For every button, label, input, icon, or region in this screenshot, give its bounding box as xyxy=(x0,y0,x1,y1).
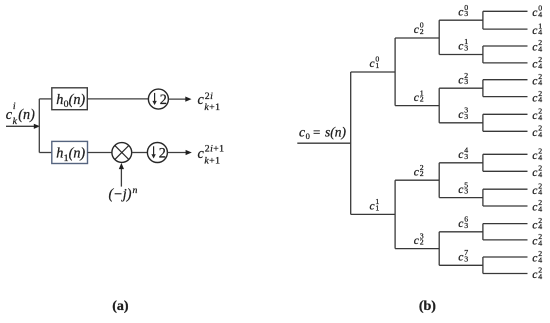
svg-text:c: c xyxy=(532,236,537,248)
svg-text:4: 4 xyxy=(538,170,542,179)
svg-text:2i+1: 2i+1 xyxy=(205,144,225,155)
svg-text:k+1: k+1 xyxy=(204,155,220,166)
svg-text:4: 4 xyxy=(538,10,542,19)
svg-text:2: 2 xyxy=(420,27,424,36)
svg-text:c: c xyxy=(532,25,537,37)
svg-text:c: c xyxy=(532,75,537,87)
svg-text:c: c xyxy=(299,124,305,139)
svg-text:4: 4 xyxy=(538,28,542,37)
svg-text:c: c xyxy=(370,58,375,70)
svg-text:k+1: k+1 xyxy=(204,102,220,113)
svg-text:c: c xyxy=(370,201,375,213)
svg-text:c: c xyxy=(458,74,463,86)
svg-text:4: 4 xyxy=(538,205,542,214)
svg-text:4: 4 xyxy=(538,256,542,265)
svg-text:2i: 2i xyxy=(205,91,213,102)
svg-text:(n): (n) xyxy=(69,146,86,162)
svg-text:3: 3 xyxy=(464,187,468,196)
svg-text:c: c xyxy=(458,218,463,230)
svg-text:4: 4 xyxy=(538,153,542,162)
svg-text:c: c xyxy=(414,235,419,247)
svg-text:c: c xyxy=(532,185,537,197)
svg-text:(n): (n) xyxy=(69,92,86,108)
svg-text:c: c xyxy=(532,167,537,179)
svg-text:3: 3 xyxy=(464,221,468,230)
svg-text:c: c xyxy=(532,42,537,54)
svg-text:=: = xyxy=(313,124,320,139)
svg-text:4: 4 xyxy=(538,45,542,54)
svg-text:k: k xyxy=(13,116,18,127)
svg-text:(−j): (−j) xyxy=(109,187,132,203)
svg-text:c: c xyxy=(532,202,537,214)
svg-text:4: 4 xyxy=(538,95,542,104)
svg-text:3: 3 xyxy=(464,152,468,161)
svg-text:c: c xyxy=(458,41,463,53)
svg-text:3: 3 xyxy=(464,9,468,18)
svg-text:1: 1 xyxy=(375,61,379,70)
svg-text:c: c xyxy=(532,110,537,122)
svg-text:4: 4 xyxy=(538,78,542,87)
svg-text:c: c xyxy=(458,184,463,196)
svg-text:2: 2 xyxy=(159,146,166,162)
svg-text:c: c xyxy=(414,92,419,104)
svg-text:c: c xyxy=(532,253,537,265)
svg-text:3: 3 xyxy=(464,112,468,121)
svg-text:3: 3 xyxy=(464,77,468,86)
svg-text:n: n xyxy=(133,185,138,196)
svg-text:4: 4 xyxy=(538,222,542,231)
svg-text:c: c xyxy=(532,127,537,139)
svg-text:i: i xyxy=(13,101,16,112)
svg-text:2: 2 xyxy=(420,169,424,178)
svg-text:4: 4 xyxy=(538,238,542,247)
svg-text:c: c xyxy=(414,166,419,178)
svg-text:4: 4 xyxy=(538,188,542,197)
svg-text:2: 2 xyxy=(420,238,424,247)
svg-text:1: 1 xyxy=(375,203,379,212)
svg-text:4: 4 xyxy=(538,272,542,281)
svg-text:(n): (n) xyxy=(18,107,35,123)
svg-text:(a): (a) xyxy=(112,299,129,314)
svg-text:c: c xyxy=(414,24,419,36)
svg-text:c: c xyxy=(458,6,463,18)
svg-text:s(n): s(n) xyxy=(325,124,346,139)
svg-text:c: c xyxy=(532,7,537,19)
svg-text:(b): (b) xyxy=(419,299,436,314)
svg-text:3: 3 xyxy=(464,44,468,53)
svg-text:4: 4 xyxy=(538,61,542,70)
svg-text:c: c xyxy=(458,252,463,264)
svg-text:0: 0 xyxy=(306,131,310,141)
svg-text:4: 4 xyxy=(538,113,542,122)
svg-text:2: 2 xyxy=(160,92,167,108)
svg-text:2: 2 xyxy=(420,95,424,104)
svg-text:c: c xyxy=(458,109,463,121)
svg-text:c: c xyxy=(532,92,537,104)
svg-text:c: c xyxy=(532,150,537,162)
svg-text:h: h xyxy=(56,146,63,162)
svg-text:c: c xyxy=(458,149,463,161)
svg-text:c: c xyxy=(532,59,537,71)
svg-text:h: h xyxy=(56,92,63,108)
svg-text:4: 4 xyxy=(538,130,542,139)
svg-text:c: c xyxy=(532,269,537,281)
svg-text:c: c xyxy=(532,219,537,231)
svg-text:3: 3 xyxy=(464,254,468,263)
